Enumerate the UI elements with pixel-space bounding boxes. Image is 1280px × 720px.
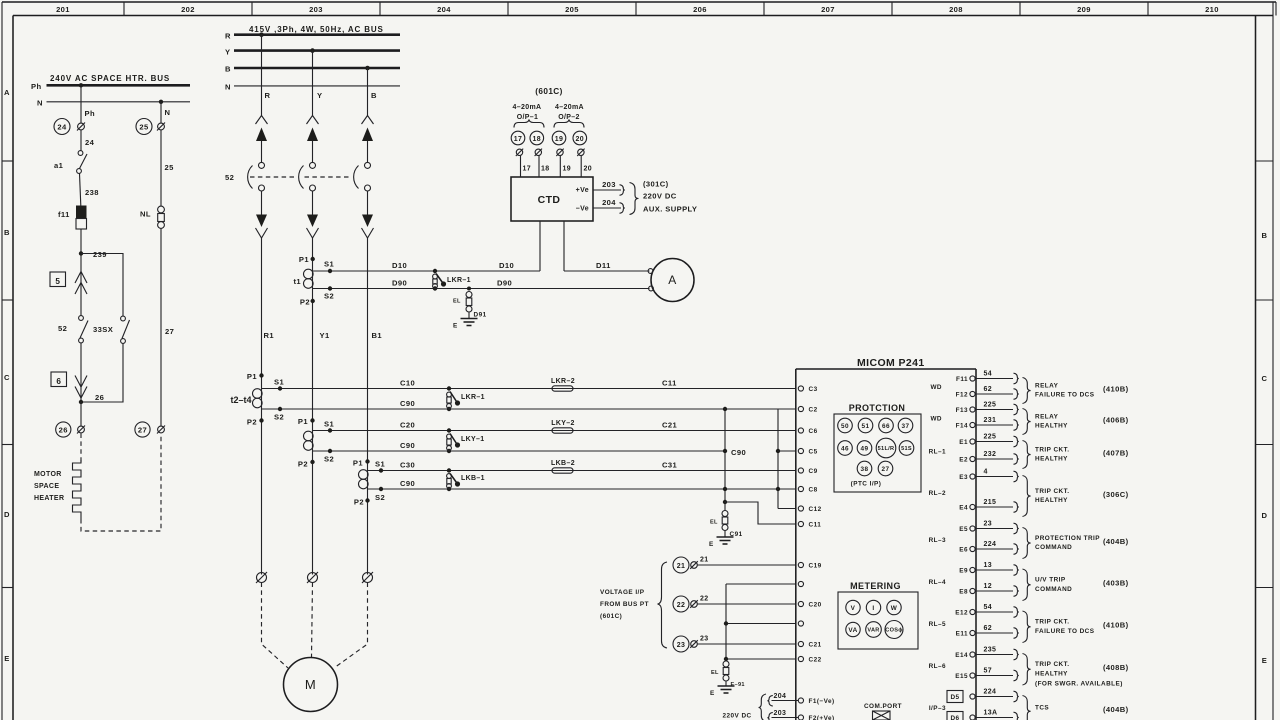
link LKY-2 (552, 428, 573, 433)
svg-text:LKR–1: LKR–1 (447, 277, 471, 284)
fuse EL / wire E-91 to earth (711, 661, 745, 688)
svg-text:RL–1: RL–1 (929, 449, 946, 456)
svg-text:C8: C8 (809, 487, 818, 494)
svg-text:C90: C90 (400, 479, 415, 488)
contact group (410B) RELAY (1023, 378, 1031, 404)
svg-text:209: 209 (1077, 5, 1091, 14)
svg-text:(306C): (306C) (1103, 490, 1129, 499)
svg-text:VOLTAGE I/P: VOLTAGE I/P (600, 589, 645, 596)
svg-text:F2(+Ve): F2(+Ve) (809, 715, 835, 720)
wire E12 contact lead 54 (975, 611, 1013, 613)
svg-text:204: 204 (602, 198, 616, 207)
wire E5 contact lead 23 (975, 528, 1013, 530)
svg-text:23: 23 (677, 642, 686, 649)
svg-text:SPACE: SPACE (34, 483, 59, 490)
svg-text:232: 232 (984, 451, 997, 458)
svg-text:52: 52 (225, 173, 234, 182)
pin D5 output (947, 691, 963, 703)
svg-text:C20: C20 (400, 421, 415, 430)
wire N drop (160, 102, 162, 123)
pin C22 (798, 656, 803, 661)
svg-text:49: 49 (860, 446, 868, 453)
svg-text:Ph: Ph (31, 82, 42, 91)
svg-text:U/V TRIP: U/V TRIP (1035, 577, 1066, 584)
border frame: right edge (1256, 2, 1274, 720)
terminal 25 slashed terminal symbol (158, 123, 165, 130)
link LKR-2 (552, 386, 573, 391)
terminal 27 slashed terminal symbol (158, 426, 165, 433)
svg-text:E14: E14 (955, 652, 968, 659)
contact group (404B) PROTECTION TRIP (1023, 528, 1031, 559)
svg-text:C12: C12 (809, 506, 822, 513)
svg-text:62: 62 (984, 386, 993, 393)
motor M (284, 658, 338, 712)
breaker 52 pole R (248, 116, 268, 239)
contact group (404B) TCS (1023, 696, 1031, 720)
svg-text:HEALTHY: HEALTHY (1035, 423, 1068, 430)
wire 203 to F2 (772, 717, 799, 719)
contact group (408B) TRIP CKT. (1023, 654, 1031, 686)
svg-text:S2: S2 (324, 292, 334, 301)
wire E6 contact lead 224 (975, 548, 1013, 550)
wire Y bus (234, 49, 400, 52)
svg-text:EL: EL (453, 299, 461, 305)
CTD output terminals 17 18 19 20 (511, 87, 592, 177)
svg-text:(403B): (403B) (1103, 579, 1129, 588)
svg-text:27: 27 (165, 327, 174, 336)
svg-text:206: 206 (693, 5, 707, 14)
border frame: top band (2, 2, 1276, 16)
svg-text:205: 205 (565, 5, 579, 14)
terminal R1 slashed (257, 573, 267, 583)
wire C90 phase R return (262, 408, 778, 410)
junction Y bus (310, 48, 315, 53)
border frame: left edge (2, 16, 13, 720)
svg-text:4: 4 (984, 469, 988, 476)
wire 204 -Ve (593, 207, 621, 209)
svg-text:RL–2: RL–2 (929, 490, 946, 497)
svg-text:(PTC I/P): (PTC I/P) (851, 481, 882, 488)
svg-text:NL: NL (140, 210, 151, 219)
contact group (410B) TRIP CKT. (1023, 611, 1031, 643)
svg-text:204: 204 (774, 693, 787, 700)
link LKY-1 on C20/C90 (447, 428, 485, 453)
wire B bus (234, 67, 400, 70)
wire E1 contact lead 225 (975, 441, 1013, 443)
svg-text:EL: EL (710, 520, 718, 526)
wire E15 contact lead 57 (975, 675, 1013, 677)
wire CTD to D10 (539, 221, 541, 271)
relay MICOM P241 box (796, 357, 976, 720)
drawout arrow down on heater feed (75, 376, 87, 388)
svg-text:18: 18 (533, 136, 542, 143)
com port (864, 703, 902, 720)
svg-text:C2: C2 (809, 407, 818, 414)
svg-text:210: 210 (1205, 5, 1219, 14)
svg-text:PROTCTION: PROTCTION (849, 403, 906, 413)
svg-text:17: 17 (523, 166, 532, 173)
svg-text:C30: C30 (400, 461, 415, 470)
switch a1 (78, 151, 83, 156)
link LKB-2 (552, 468, 573, 473)
svg-text:+Ve: +Ve (576, 187, 589, 194)
pin C12 (798, 506, 803, 511)
svg-text:208: 208 (949, 5, 963, 14)
svg-text:C21: C21 (809, 642, 822, 649)
junction on Ph bus (79, 83, 83, 87)
svg-text:5: 5 (55, 277, 60, 286)
svg-text:225: 225 (984, 402, 997, 409)
terminal 25 circled number (136, 119, 152, 135)
svg-text:LKR–1: LKR–1 (461, 394, 485, 401)
svg-text:HEALTHY: HEALTHY (1035, 497, 1068, 504)
svg-text:E: E (453, 323, 458, 330)
svg-text:4–20mA: 4–20mA (513, 104, 542, 111)
svg-text:22: 22 (677, 602, 686, 609)
svg-text:C19: C19 (809, 563, 822, 570)
svg-text:P1: P1 (299, 255, 309, 264)
svg-text:I/P–3: I/P–3 (929, 705, 946, 712)
wire Ph bus (47, 84, 191, 87)
wire D10 (313, 270, 540, 272)
svg-text:4–20mA: 4–20mA (555, 104, 584, 111)
wire E11 contact lead 62 (975, 632, 1013, 634)
junction B bus (365, 66, 370, 71)
pin F2(+Ve) (798, 715, 803, 720)
svg-text:f11: f11 (58, 210, 70, 219)
svg-text:54: 54 (984, 604, 993, 611)
resistor motor space heater element (73, 460, 82, 519)
pin C5 (798, 448, 803, 453)
svg-text:R: R (265, 91, 271, 100)
pin C20 (798, 601, 803, 606)
link LKR-1 on D10/D90 (433, 269, 471, 291)
svg-text:S2: S2 (375, 493, 385, 502)
svg-text:E5: E5 (959, 526, 968, 533)
pin C19 (798, 562, 803, 567)
svg-text:203: 203 (774, 710, 787, 717)
svg-text:E3: E3 (959, 474, 968, 481)
svg-text:−Ve: −Ve (576, 206, 589, 213)
svg-text:D10: D10 (499, 261, 514, 270)
link LKB-1 on C30/C90 (447, 468, 485, 491)
svg-text:21: 21 (700, 557, 709, 564)
svg-text:R: R (225, 32, 231, 41)
svg-text:220V DC: 220V DC (643, 192, 677, 201)
svg-text:LKB–2: LKB–2 (551, 460, 575, 467)
wire branch to C11 terminal (725, 502, 796, 524)
junction R bus (259, 32, 264, 37)
wire F12 contact lead 62 (975, 393, 1013, 395)
svg-text:TCS: TCS (1035, 705, 1049, 712)
svg-text:62: 62 (984, 625, 993, 632)
svg-text:HEALTHY: HEALTHY (1035, 456, 1068, 463)
svg-text:F13: F13 (956, 407, 968, 414)
svg-text:RL–3: RL–3 (929, 537, 946, 544)
pin VT neutral a (798, 581, 803, 586)
wire 204 to F1 (772, 700, 799, 702)
pin C8 (798, 486, 803, 491)
svg-text:E9: E9 (959, 568, 968, 575)
CT t3 on Y1 (298, 417, 315, 469)
wire E3 contact lead 4 (975, 476, 1013, 478)
junction on N bus (159, 100, 163, 104)
brace voltage inputs (658, 562, 668, 648)
svg-text:E6: E6 (959, 547, 968, 554)
svg-text:N: N (165, 108, 171, 117)
svg-text:F14: F14 (956, 423, 968, 430)
junction 26 (79, 400, 83, 404)
wire Ph drop (80, 85, 82, 123)
switch 33SX (121, 316, 126, 321)
svg-text:S1: S1 (324, 420, 334, 429)
svg-text:20: 20 (584, 166, 593, 173)
svg-text:RL–6: RL–6 (929, 663, 946, 670)
svg-text:AUX. SUPPLY: AUX. SUPPLY (643, 205, 697, 214)
svg-text:COMMAND: COMMAND (1035, 544, 1072, 551)
svg-text:235: 235 (984, 647, 997, 654)
terminal 22 PT input (673, 596, 796, 613)
svg-text:C11: C11 (809, 522, 822, 529)
wire R phase drop (261, 35, 263, 117)
svg-text:PROTECTION TRIP: PROTECTION TRIP (1035, 535, 1100, 542)
wire Y1 (312, 238, 314, 575)
svg-text:C20: C20 (809, 602, 822, 609)
svg-text:P2: P2 (300, 298, 310, 307)
svg-text:E12: E12 (955, 610, 968, 617)
terminal Y1 slashed (308, 573, 318, 583)
svg-text:20: 20 (576, 136, 585, 143)
svg-text:E: E (1262, 656, 1267, 665)
svg-text:201: 201 (56, 5, 70, 14)
CT t1 on Y1 (293, 255, 314, 307)
svg-text:B: B (371, 91, 377, 100)
svg-text:RL–4: RL–4 (929, 579, 946, 586)
switch 52 heater (79, 316, 84, 321)
svg-text:TRIP CKT.: TRIP CKT. (1035, 446, 1069, 453)
svg-text:LKY–1: LKY–1 (461, 436, 485, 443)
wire 203 +Ve (593, 189, 621, 191)
CTD transducer box (511, 177, 593, 221)
svg-text:D90: D90 (497, 279, 512, 288)
svg-text:23: 23 (700, 636, 709, 643)
wire R1 (261, 238, 263, 575)
svg-text:P1: P1 (247, 372, 257, 381)
svg-text:F12: F12 (956, 392, 968, 399)
ground E at VT neutral (710, 686, 735, 697)
svg-text:V: V (851, 605, 856, 612)
svg-text:D6: D6 (950, 715, 959, 720)
svg-text:21: 21 (677, 563, 686, 570)
svg-text:D11: D11 (596, 261, 611, 270)
pin C6 (798, 428, 803, 433)
svg-text:N: N (37, 99, 43, 108)
svg-text:(410B): (410B) (1103, 384, 1129, 393)
svg-text:203: 203 (602, 180, 616, 189)
svg-text:23: 23 (984, 521, 993, 528)
wire to box 6 zone (80, 343, 82, 402)
fuse EL / wire C91 to earth (710, 511, 743, 539)
pin F1(-Ve) (798, 698, 803, 703)
svg-text:(404B): (404B) (1103, 537, 1129, 546)
ammeter A (648, 259, 694, 302)
svg-text:Y: Y (317, 91, 322, 100)
svg-text:202: 202 (181, 5, 195, 14)
svg-text:13: 13 (984, 562, 993, 569)
svg-text:25: 25 (165, 163, 175, 172)
svg-text:C6: C6 (809, 428, 818, 435)
contact group (407B) TRIP CKT. (1023, 441, 1031, 469)
svg-text:215: 215 (984, 499, 997, 506)
svg-text:(601C): (601C) (535, 87, 562, 96)
svg-text:B: B (4, 228, 10, 237)
pin D6 output (947, 712, 963, 720)
wire dashed heater return loop (81, 434, 161, 532)
svg-text:24: 24 (57, 123, 67, 132)
svg-text:240V AC SPACE HTR. BUS: 240V AC SPACE HTR. BUS (50, 74, 170, 83)
svg-text:S1: S1 (274, 378, 284, 387)
box 5 zone marker (50, 272, 66, 287)
svg-text:415V ,3Ph, 4W, 50Hz, AC BUS: 415V ,3Ph, 4W, 50Hz, AC BUS (249, 25, 384, 34)
svg-text:W: W (891, 605, 898, 612)
svg-text:(408B): (408B) (1103, 663, 1129, 672)
wire breaker 52 interpole dashed link (250, 176, 297, 178)
wire E4 contact lead 215 (975, 506, 1013, 508)
svg-text:P1: P1 (298, 417, 308, 426)
wire VT neutral tie (726, 583, 796, 585)
ground E at D91 (453, 319, 478, 330)
svg-text:B: B (1262, 231, 1268, 240)
svg-text:(601C): (601C) (600, 613, 622, 620)
svg-text:E4: E4 (959, 505, 968, 512)
wire B phase drop (367, 68, 369, 117)
wire C10 (262, 388, 796, 390)
wire to junction 239 (80, 229, 82, 268)
wire C20 (313, 430, 796, 432)
wire dashed B1 to motor (334, 583, 368, 669)
svg-text:C10: C10 (400, 379, 415, 388)
svg-text:RELAY: RELAY (1035, 382, 1059, 389)
svg-text:I: I (872, 605, 874, 612)
svg-text:E: E (710, 690, 715, 697)
svg-text:FAILURE TO DCS: FAILURE TO DCS (1035, 392, 1095, 399)
svg-text:(406B): (406B) (1103, 415, 1129, 424)
wire D90 (313, 288, 650, 290)
svg-text:C5: C5 (809, 449, 818, 456)
svg-text:E–91: E–91 (731, 682, 745, 688)
svg-text:MICOM P241: MICOM P241 (857, 357, 925, 369)
wire D11 from CTD to ammeter (563, 221, 565, 271)
function box PROTCTION (834, 403, 921, 492)
svg-text:C3: C3 (809, 386, 818, 393)
wire 33SX to junction 26 (81, 344, 123, 403)
ground E at C91 (709, 537, 734, 548)
svg-text:EL: EL (711, 670, 719, 676)
svg-text:R1: R1 (264, 331, 275, 340)
svg-text:LKY–2: LKY–2 (551, 420, 575, 427)
junction 239 (79, 251, 83, 255)
svg-text:TRIP CKT.: TRIP CKT. (1035, 661, 1069, 668)
svg-text:(410B): (410B) (1103, 621, 1129, 630)
svg-text:COMMAND: COMMAND (1035, 586, 1072, 593)
svg-text:a1: a1 (54, 161, 64, 170)
svg-text:P1: P1 (353, 459, 363, 468)
svg-text:O/P–1: O/P–1 (517, 114, 539, 121)
svg-text:224: 224 (984, 689, 997, 696)
svg-text:26: 26 (95, 393, 104, 402)
wire E2 contact lead 232 (975, 458, 1013, 460)
pin VT neutral b (798, 621, 803, 626)
svg-text:D: D (1262, 511, 1268, 520)
terminal 21 PT input (673, 557, 796, 574)
svg-text:238: 238 (85, 188, 99, 197)
svg-text:C11: C11 (662, 379, 677, 388)
wire dashed to heater (80, 434, 82, 463)
box 6 zone marker (51, 372, 67, 387)
svg-text:25: 25 (139, 123, 149, 132)
svg-text:VA: VA (848, 627, 857, 634)
svg-text:P2: P2 (354, 498, 364, 507)
terminal 23 PT input (673, 636, 796, 653)
svg-text:D5: D5 (950, 694, 959, 701)
svg-text:COM.PORT: COM.PORT (864, 703, 902, 710)
svg-text:C90: C90 (400, 399, 415, 408)
svg-text:C31: C31 (662, 461, 678, 470)
svg-text:t2–t4: t2–t4 (230, 395, 251, 405)
svg-text:225: 225 (984, 434, 997, 441)
svg-text:51L/R: 51L/R (878, 446, 895, 452)
svg-text:220V DC: 220V DC (723, 713, 752, 720)
svg-text:M: M (305, 677, 316, 692)
svg-text:C90: C90 (731, 448, 746, 457)
svg-text:HEALTHY: HEALTHY (1035, 670, 1068, 677)
svg-text:231: 231 (984, 417, 997, 424)
wire dashed R1 to motor (262, 583, 289, 669)
svg-text:51: 51 (861, 423, 869, 430)
svg-text:E: E (709, 541, 714, 548)
pin C3 (798, 386, 803, 391)
svg-text:S1: S1 (375, 460, 385, 469)
CT t2 on R1 (247, 372, 264, 427)
svg-text:C22: C22 (809, 657, 822, 664)
wire C90 phase Y return (313, 450, 725, 452)
svg-text:13A: 13A (984, 710, 998, 717)
svg-text:27: 27 (138, 426, 147, 435)
svg-text:C: C (4, 373, 10, 382)
svg-text:B: B (225, 65, 231, 74)
pin C11 (798, 521, 803, 526)
svg-text:6: 6 (56, 377, 61, 386)
svg-text:METERING: METERING (850, 581, 901, 591)
wire B1 (367, 238, 369, 575)
neutral link NL (158, 206, 165, 213)
breaker 52 pole Y (299, 116, 319, 239)
fuse EL / wire D91 to earth (453, 287, 487, 319)
wire E8 contact lead 12 (975, 590, 1013, 592)
svg-text:38: 38 (860, 466, 868, 473)
svg-text:VAR: VAR (867, 628, 879, 634)
svg-text:(301C): (301C) (643, 180, 669, 189)
svg-text:C9: C9 (809, 468, 818, 475)
terminal 24 slashed terminal symbol (78, 123, 85, 130)
wire C90 phase B return (368, 488, 796, 490)
svg-text:C: C (1262, 374, 1268, 383)
wire N bus 415V (234, 85, 400, 87)
svg-text:(FOR SWGR. AVAILABLE): (FOR SWGR. AVAILABLE) (1035, 680, 1123, 687)
svg-text:WD: WD (930, 416, 942, 423)
pin C21 (798, 641, 803, 646)
contact group (406B) RELAY (1023, 409, 1031, 435)
